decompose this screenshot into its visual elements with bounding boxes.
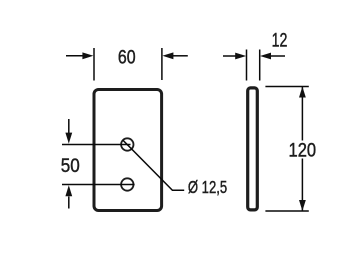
svg-text:Ø 12,5: Ø 12,5 bbox=[188, 178, 227, 197]
svg-text:120: 120 bbox=[289, 139, 317, 160]
svg-text:12: 12 bbox=[272, 29, 288, 50]
svg-text:50: 50 bbox=[61, 155, 80, 176]
svg-text:60: 60 bbox=[118, 46, 136, 68]
